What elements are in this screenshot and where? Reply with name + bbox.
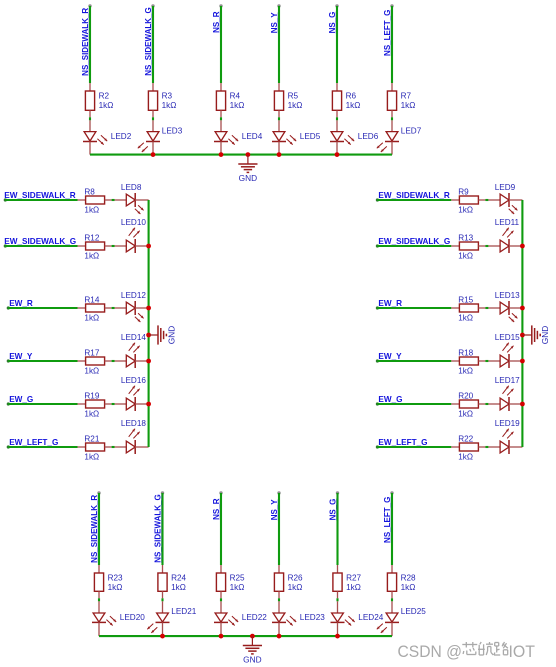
svg-text:EW_R: EW_R — [9, 299, 33, 308]
resistor R25 — [216, 565, 245, 598]
svg-text:LED2: LED2 — [111, 132, 132, 141]
net label EW_LEFT_G — [9, 438, 58, 447]
svg-text:EW_Y: EW_Y — [9, 352, 33, 361]
resistor R9 — [451, 187, 485, 214]
wire — [148, 200, 150, 447]
resistor R14 — [78, 295, 112, 322]
resistor R7 — [387, 83, 415, 117]
svg-text:R27: R27 — [346, 574, 361, 583]
pin NS_SIDEWALK_G — [161, 491, 164, 494]
svg-text:LED8: LED8 — [121, 183, 142, 192]
junction — [520, 402, 525, 407]
wire — [98, 493, 100, 565]
LED LED25 — [377, 601, 426, 636]
pin NS_G — [336, 491, 339, 494]
svg-text:1kΩ: 1kΩ — [84, 206, 99, 215]
net label EW_G — [9, 395, 33, 404]
wire — [112, 307, 115, 309]
ground GND — [522, 325, 550, 344]
svg-text:NS_SIDEWALK_G: NS_SIDEWALK_G — [153, 494, 162, 562]
net label NS_Y — [270, 499, 279, 521]
LED LED16 — [115, 376, 149, 411]
LED LED18 — [115, 419, 149, 454]
wire — [8, 403, 77, 405]
svg-text:LED19: LED19 — [495, 419, 520, 428]
wire — [112, 199, 115, 201]
pin NS_SIDEWALK_R — [88, 4, 91, 7]
wire — [5, 199, 77, 201]
net label NS_G — [328, 499, 337, 521]
wire — [391, 6, 393, 83]
svg-text:R21: R21 — [84, 434, 99, 443]
wire — [278, 598, 280, 601]
junction — [146, 333, 151, 338]
svg-text:CSDN @: CSDN @ — [398, 642, 463, 661]
svg-text:EW_LEFT_G: EW_LEFT_G — [378, 438, 427, 447]
LED LED22 — [214, 601, 267, 636]
LED LED8 — [115, 183, 149, 214]
watermark CSDN @xinhangluIOT — [398, 642, 536, 661]
wire — [220, 6, 222, 83]
svg-text:1kΩ: 1kΩ — [99, 101, 114, 110]
net label NS_LEFT_G — [383, 497, 392, 543]
svg-text:LED16: LED16 — [121, 376, 146, 385]
wire — [377, 403, 451, 405]
svg-text:1kΩ: 1kΩ — [288, 583, 303, 592]
pin EW_SIDEWALK_G — [376, 244, 379, 247]
pin EW_SIDEWALK_R — [4, 198, 7, 201]
resistor R26 — [274, 565, 303, 598]
svg-text:R12: R12 — [84, 233, 99, 242]
resistor R17 — [78, 348, 112, 375]
svg-text:NS_R: NS_R — [212, 11, 221, 33]
svg-text:1kΩ: 1kΩ — [230, 583, 245, 592]
LED LED4 — [214, 120, 263, 154]
svg-text:LED13: LED13 — [495, 291, 520, 300]
svg-text:1kΩ: 1kΩ — [288, 101, 303, 110]
wire — [98, 598, 100, 601]
LED LED7 — [377, 120, 422, 154]
svg-text:R13: R13 — [458, 233, 473, 242]
svg-text:NS_Y: NS_Y — [270, 499, 279, 521]
wire — [336, 493, 338, 565]
ground GND — [238, 155, 257, 184]
pin EW_Y — [7, 359, 10, 362]
net label EW_LEFT_G — [378, 438, 427, 447]
wire — [485, 199, 488, 201]
wire — [278, 117, 280, 120]
resistor R23 — [94, 565, 123, 598]
svg-text:1kΩ: 1kΩ — [162, 101, 177, 110]
ground GND — [149, 325, 177, 344]
svg-text:NS_SIDEWALK_R: NS_SIDEWALK_R — [90, 495, 99, 563]
LED LED9 — [488, 183, 522, 214]
svg-text:LED15: LED15 — [495, 333, 520, 342]
LED LED2 — [83, 120, 132, 154]
pin NS_G — [335, 4, 338, 7]
ground GND — [243, 636, 262, 665]
svg-text:LED10: LED10 — [121, 218, 146, 227]
net label NS_R — [212, 498, 221, 520]
wire — [377, 446, 451, 448]
svg-text:LED25: LED25 — [401, 607, 426, 616]
resistor R22 — [451, 434, 485, 461]
wire — [485, 403, 488, 405]
svg-text:GND: GND — [540, 326, 550, 344]
net label NS_SIDEWALK_R — [90, 495, 99, 563]
svg-text:1kΩ: 1kΩ — [84, 252, 99, 261]
net label NS_SIDEWALK_G — [144, 7, 153, 75]
svg-text:EW_LEFT_G: EW_LEFT_G — [9, 438, 58, 447]
net label NS_SIDEWALK_R — [81, 8, 90, 76]
net label NS_R — [212, 11, 221, 33]
wire — [161, 598, 163, 601]
resistor R24 — [158, 565, 187, 598]
svg-text:R7: R7 — [401, 92, 412, 101]
junction — [520, 333, 525, 338]
svg-text:LED11: LED11 — [495, 218, 520, 227]
wire — [89, 6, 91, 83]
svg-text:1kΩ: 1kΩ — [401, 101, 416, 110]
wire — [336, 6, 338, 83]
net label EW_SIDEWALK_G — [4, 237, 76, 246]
wire — [8, 360, 77, 362]
junction — [250, 634, 255, 639]
wire — [220, 493, 222, 565]
wire — [112, 446, 115, 448]
wire — [99, 635, 392, 637]
svg-text:LED23: LED23 — [300, 613, 325, 622]
svg-text:R25: R25 — [230, 574, 245, 583]
junction — [277, 634, 282, 639]
resistor R13 — [451, 233, 485, 260]
svg-text:R19: R19 — [84, 391, 99, 400]
svg-text:LED12: LED12 — [121, 291, 146, 300]
resistor R20 — [451, 391, 485, 418]
svg-text:R28: R28 — [401, 574, 416, 583]
svg-text:GND: GND — [239, 173, 257, 183]
junction — [277, 152, 282, 157]
svg-text:EW_SIDEWALK_G: EW_SIDEWALK_G — [4, 237, 76, 246]
svg-text:1kΩ: 1kΩ — [346, 583, 361, 592]
pin NS_LEFT_G — [390, 491, 393, 494]
svg-text:IOT: IOT — [509, 642, 536, 661]
net label EW_Y — [9, 352, 33, 361]
LED LED21 — [147, 601, 196, 636]
svg-text:NS_Y: NS_Y — [270, 12, 279, 34]
wire — [377, 360, 451, 362]
wire — [521, 200, 523, 447]
svg-text:NS_SIDEWALK_G: NS_SIDEWALK_G — [144, 7, 153, 75]
net label NS_SIDEWALK_G — [153, 494, 162, 562]
LED LED24 — [331, 601, 384, 636]
svg-text:GND: GND — [166, 326, 176, 344]
net label EW_SIDEWALK_R — [4, 191, 76, 200]
LED LED11 — [488, 218, 522, 253]
LED LED12 — [115, 291, 149, 322]
svg-text:R23: R23 — [108, 574, 123, 583]
wire — [391, 117, 393, 120]
svg-text:1kΩ: 1kΩ — [108, 583, 123, 592]
resistor R15 — [451, 295, 485, 322]
svg-text:LED9: LED9 — [495, 183, 516, 192]
wire — [8, 446, 77, 448]
LED LED17 — [488, 376, 522, 411]
svg-text:LED24: LED24 — [358, 613, 383, 622]
wire — [152, 117, 154, 120]
svg-text:1kΩ: 1kΩ — [84, 367, 99, 376]
LED LED10 — [115, 218, 149, 253]
svg-text:1kΩ: 1kΩ — [230, 101, 245, 110]
LED LED13 — [488, 291, 522, 322]
pin EW_G — [376, 402, 379, 405]
junction — [146, 244, 151, 249]
svg-text:R9: R9 — [458, 187, 469, 196]
net label EW_SIDEWALK_G — [378, 237, 450, 246]
svg-text:EW_SIDEWALK_R: EW_SIDEWALK_R — [378, 191, 450, 200]
resistor R3 — [148, 83, 176, 117]
svg-text:1kΩ: 1kΩ — [458, 314, 473, 323]
wire — [112, 360, 115, 362]
svg-text:R26: R26 — [288, 574, 303, 583]
svg-text:NS_SIDEWALK_R: NS_SIDEWALK_R — [81, 8, 90, 76]
svg-text:R20: R20 — [458, 391, 473, 400]
resistor R8 — [78, 187, 112, 214]
wire — [278, 6, 280, 83]
svg-text:EW_R: EW_R — [378, 299, 402, 308]
junction — [219, 152, 224, 157]
svg-text:1kΩ: 1kΩ — [84, 314, 99, 323]
resistor R19 — [78, 391, 112, 418]
svg-text:NS_LEFT_G: NS_LEFT_G — [383, 10, 392, 56]
pin NS_Y — [277, 4, 280, 7]
junction — [335, 152, 340, 157]
svg-text:LED7: LED7 — [401, 126, 422, 135]
pin NS_Y — [277, 491, 280, 494]
svg-text:R8: R8 — [84, 187, 95, 196]
LED LED20 — [92, 601, 145, 636]
svg-text:1kΩ: 1kΩ — [346, 101, 361, 110]
pin EW_R — [376, 306, 379, 309]
LED LED6 — [330, 120, 379, 154]
svg-text:R5: R5 — [288, 92, 299, 101]
net label NS_Y — [270, 12, 279, 34]
wire — [89, 117, 91, 120]
wire — [485, 307, 488, 309]
net label EW_R — [378, 299, 402, 308]
net label NS_G — [328, 12, 337, 34]
pin NS_SIDEWALK_G — [151, 4, 154, 7]
resistor R18 — [451, 348, 485, 375]
LED LED19 — [488, 419, 522, 454]
svg-text:R2: R2 — [99, 92, 110, 101]
wire — [278, 493, 280, 565]
svg-text:1kΩ: 1kΩ — [458, 367, 473, 376]
wire — [336, 117, 338, 120]
pin EW_R — [7, 306, 10, 309]
wire — [112, 403, 115, 405]
wire — [485, 360, 488, 362]
svg-text:EW_Y: EW_Y — [378, 352, 402, 361]
net label EW_Y — [378, 352, 402, 361]
svg-text:1kΩ: 1kΩ — [84, 410, 99, 419]
wire — [161, 493, 163, 565]
LED LED15 — [488, 333, 522, 368]
svg-text:LED21: LED21 — [171, 607, 196, 616]
pin NS_R — [219, 4, 222, 7]
svg-text:R24: R24 — [171, 574, 186, 583]
wire — [377, 199, 451, 201]
svg-text:EW_SIDEWALK_G: EW_SIDEWALK_G — [378, 237, 450, 246]
junction — [146, 402, 151, 407]
wire — [485, 446, 488, 448]
wire — [336, 598, 338, 601]
wire — [112, 245, 115, 247]
LED LED23 — [272, 601, 325, 636]
pin NS_R — [219, 491, 222, 494]
wire — [8, 307, 77, 309]
svg-text:LED5: LED5 — [300, 132, 321, 141]
svg-text:LED6: LED6 — [358, 132, 379, 141]
resistor R6 — [332, 83, 360, 117]
junction — [146, 306, 151, 311]
junction — [520, 244, 525, 249]
junction — [146, 359, 151, 364]
LED LED3 — [138, 120, 183, 154]
svg-text:LED18: LED18 — [121, 419, 146, 428]
resistor R28 — [387, 565, 416, 598]
svg-text:LED20: LED20 — [120, 613, 145, 622]
svg-text:LED22: LED22 — [242, 613, 267, 622]
svg-text:LED14: LED14 — [121, 333, 146, 342]
svg-text:1kΩ: 1kΩ — [458, 453, 473, 462]
pin EW_LEFT_G — [376, 445, 379, 448]
svg-text:NS_G: NS_G — [328, 12, 337, 34]
wire — [485, 245, 488, 247]
svg-text:R4: R4 — [230, 92, 241, 101]
svg-text:LED17: LED17 — [495, 376, 520, 385]
resistor R21 — [78, 434, 112, 461]
wire — [377, 245, 451, 247]
svg-text:R6: R6 — [346, 92, 357, 101]
svg-text:NS_LEFT_G: NS_LEFT_G — [383, 497, 392, 543]
pin NS_LEFT_G — [390, 4, 393, 7]
junction — [520, 359, 525, 364]
wire — [5, 245, 77, 247]
svg-text:R14: R14 — [84, 295, 99, 304]
pin NS_SIDEWALK_R — [97, 491, 100, 494]
svg-text:EW_SIDEWALK_R: EW_SIDEWALK_R — [4, 191, 76, 200]
pin EW_Y — [376, 359, 379, 362]
resistor R4 — [216, 83, 244, 117]
LED LED5 — [272, 120, 321, 154]
resistor R5 — [274, 83, 302, 117]
svg-text:1kΩ: 1kΩ — [401, 583, 416, 592]
svg-text:NS_R: NS_R — [212, 498, 221, 520]
LED LED14 — [115, 333, 149, 368]
wire — [220, 117, 222, 120]
svg-text:LED4: LED4 — [242, 132, 263, 141]
wire — [152, 6, 154, 83]
wire — [391, 493, 393, 565]
svg-text:R3: R3 — [162, 92, 173, 101]
svg-text:R18: R18 — [458, 348, 473, 357]
junction — [160, 634, 165, 639]
svg-text:EW_G: EW_G — [9, 395, 33, 404]
wire — [391, 598, 393, 601]
svg-text:1kΩ: 1kΩ — [458, 410, 473, 419]
resistor R27 — [333, 565, 362, 598]
junction — [246, 152, 251, 157]
junction — [335, 634, 340, 639]
net label EW_R — [9, 299, 33, 308]
svg-text:LED3: LED3 — [162, 126, 183, 135]
wire — [377, 307, 451, 309]
svg-text:R22: R22 — [458, 434, 473, 443]
svg-text:GND: GND — [243, 655, 261, 665]
svg-text:1kΩ: 1kΩ — [171, 583, 186, 592]
svg-text:R17: R17 — [84, 348, 99, 357]
net label EW_SIDEWALK_R — [378, 191, 450, 200]
wire — [220, 598, 222, 601]
net label NS_LEFT_G — [383, 10, 392, 56]
svg-text:EW_G: EW_G — [378, 395, 402, 404]
pin EW_SIDEWALK_G — [4, 244, 7, 247]
resistor R2 — [85, 83, 113, 117]
svg-text:R15: R15 — [458, 295, 473, 304]
svg-text:1kΩ: 1kΩ — [458, 252, 473, 261]
wire — [90, 154, 392, 156]
pin EW_G — [7, 402, 10, 405]
resistor R12 — [78, 233, 112, 260]
pin EW_LEFT_G — [7, 445, 10, 448]
pin EW_SIDEWALK_R — [376, 198, 379, 201]
net label EW_G — [378, 395, 402, 404]
svg-text:1kΩ: 1kΩ — [458, 206, 473, 215]
svg-text:NS_G: NS_G — [328, 499, 337, 521]
junction — [520, 306, 525, 311]
junction — [219, 634, 224, 639]
svg-text:1kΩ: 1kΩ — [84, 453, 99, 462]
junction — [151, 152, 156, 157]
